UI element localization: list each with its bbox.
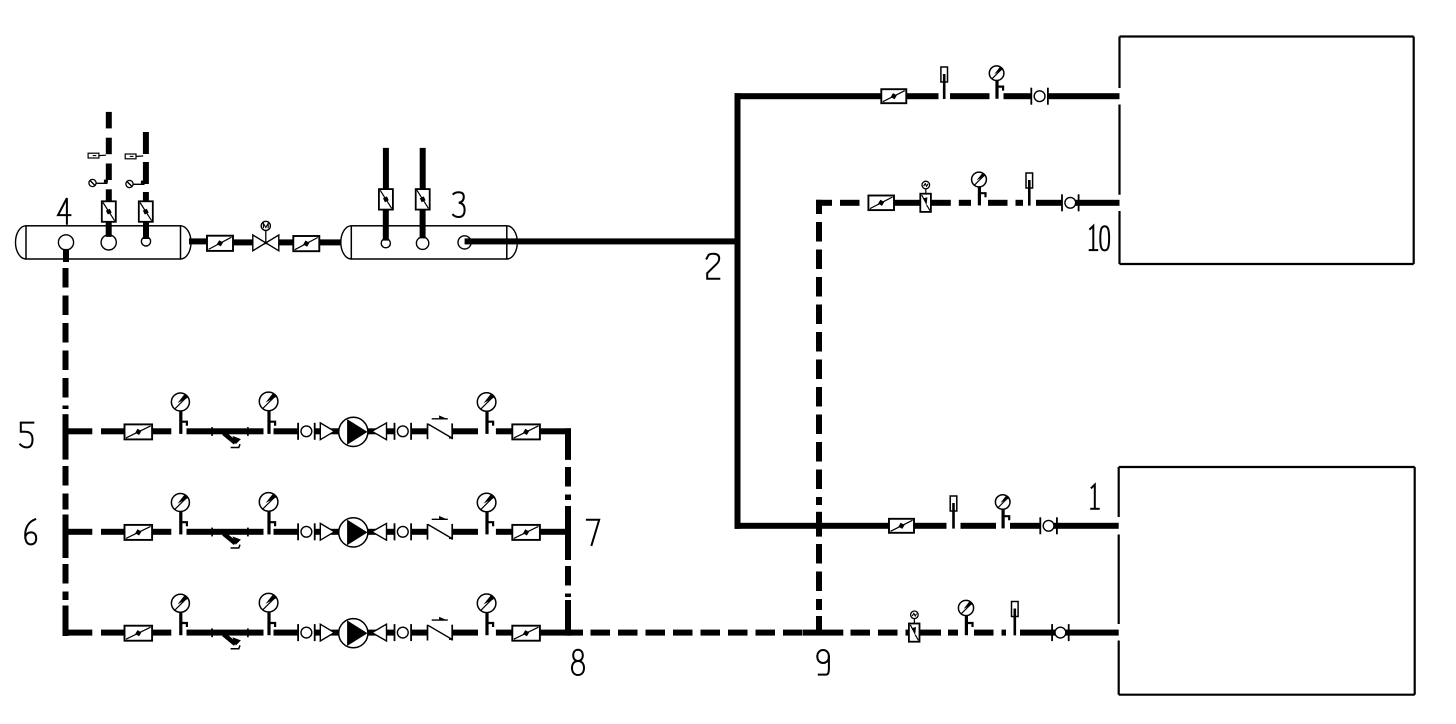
main pipe manifold 3 outlet to node 2 (465, 238, 735, 244)
manifold 3 port B (416, 237, 428, 249)
check valve on pump branch 3 (428, 617, 453, 641)
return pipe to box 10 (dashed) (816, 200, 1120, 206)
pressure gauge 1 on pump branch 1 (171, 393, 189, 434)
gauge cock on riser V4b (126, 180, 145, 187)
pump branch 1 pipe segments (63, 428, 572, 434)
manifold 3 port A stem up (383, 210, 389, 241)
riser pipe above valve V3a (383, 148, 389, 189)
manifold 4 port C (small) (141, 237, 150, 246)
gauge cock on riser V4a (89, 179, 108, 186)
thermometer on return from box 10 (1026, 173, 1033, 206)
label 4 (58, 198, 70, 224)
valve A on pump branch 1 (125, 424, 153, 439)
valve on supply to box 1 (889, 519, 914, 533)
flange joint at box 1 supply (1040, 517, 1057, 534)
thermometer on supply to box 10 (941, 67, 948, 99)
pump branch 2 pipe segments (63, 529, 572, 535)
left riser from manifold 4 (dashed) (63, 259, 70, 636)
label 3 (453, 192, 465, 217)
return pipe node 9 to box 1 (dashed) (803, 630, 1119, 636)
relief valve on return from box 10 (920, 181, 931, 212)
pressure gauge 1 on pump branch 3 (171, 594, 189, 635)
pressure gauge on supply to box 1 (995, 495, 1010, 529)
pump branch 3 pipe segments (63, 630, 572, 636)
manifold 3 port B stem up (420, 210, 426, 239)
pressure gauge 3 on pump branch 3 (477, 594, 496, 635)
flexible connector in on pump branch 2 (320, 523, 334, 540)
flange joint at box 10 return (1062, 194, 1079, 211)
strainer on pump branch 2 (212, 528, 248, 548)
manifold 4 port A stem (63, 249, 69, 259)
flange 1 on pump branch 3 (298, 624, 315, 641)
unit box 1 (1119, 467, 1415, 695)
valve B on pump branch 3 (512, 626, 540, 641)
flange 2 on pump branch 2 (395, 523, 412, 540)
label 2 (707, 254, 720, 279)
relief valve on return from box 1 (909, 611, 920, 642)
flange joint at box 10 supply (1031, 88, 1048, 105)
valve V4b above manifold 4 (139, 201, 153, 222)
flange 2 on pump branch 1 (395, 423, 412, 440)
pipe to motor valve (233, 239, 252, 245)
thermometer on riser V4a (88, 153, 106, 158)
pressure gauge 3 on pump branch 1 (477, 393, 496, 434)
valve V3a above manifold 3 (379, 189, 393, 210)
node 9 stub (816, 616, 822, 632)
check valve on pump branch 1 (428, 415, 453, 439)
unit box 10 (1120, 37, 1414, 265)
flange 2 on pump branch 3 (395, 624, 412, 641)
valve A on pump branch 2 (125, 525, 153, 540)
label 8 (572, 650, 584, 675)
collector tank 4 (manifold) (16, 226, 192, 259)
manifold 4 port A (left, down to riser) (58, 235, 73, 250)
pressure gauge 1 on pump branch 2 (171, 494, 189, 535)
strainer on pump branch 3 (212, 628, 248, 648)
right header between pump rows (dashed) (565, 428, 571, 635)
return pipe elbow/riser to node 9 (dashed) (816, 200, 822, 633)
pump P2 (339, 518, 368, 547)
supply pipe node 2 to box 1 (735, 523, 1119, 529)
supply pipe node 2 to box 10 (735, 93, 1120, 99)
pressure gauge on return from box 10 (972, 172, 987, 205)
riser pipe above valve V4a (dashed) (106, 112, 112, 202)
valve on return from box 10 (868, 196, 894, 211)
pressure gauge 2 on pump branch 1 (259, 392, 278, 434)
thermometer on riser V4b (125, 154, 143, 159)
manifold 4 port C stem up (143, 222, 149, 239)
strainer on pump branch 1 (212, 427, 248, 447)
valve V4a above manifold 4 (102, 201, 116, 222)
flange 1 on pump branch 1 (298, 423, 315, 440)
pump P3 (339, 619, 368, 648)
collector tank 3 (manifold) (341, 226, 518, 259)
label 5 (20, 423, 33, 448)
thermometer on return from box 1 (1012, 602, 1019, 636)
pipe manifold 4 to valve (189, 238, 207, 244)
label 6 (25, 519, 36, 544)
valve A on pump branch 3 (125, 626, 153, 641)
pump P1 (339, 417, 368, 446)
manifold 3 port C (outlet) (458, 236, 471, 249)
pressure gauge 2 on pump branch 2 (259, 493, 278, 535)
pipe valve to manifold 3 (319, 239, 351, 245)
flexible connector out on pump branch 3 (372, 624, 387, 641)
manifold 4 port B stem up (106, 222, 112, 237)
flange 1 on pump branch 2 (298, 523, 315, 540)
valve V3b above manifold 3 (416, 189, 430, 210)
pressure gauge on return from box 1 (958, 600, 973, 635)
check valve on pump branch 2 (428, 516, 453, 540)
flexible connector out on pump branch 1 (372, 423, 387, 440)
thermometer on supply to box 1 (950, 496, 957, 529)
manifold 3 port A (small) (381, 239, 390, 248)
pressure gauge on supply to box 10 (989, 66, 1004, 99)
pressure gauge 3 on pump branch 2 (477, 493, 496, 534)
flexible connector in on pump branch 1 (320, 423, 334, 440)
pressure gauge 2 on pump branch 3 (259, 593, 278, 635)
pipe motor valve to valve (279, 239, 293, 245)
label 7 (587, 520, 599, 545)
riser pipe above valve V3b (420, 148, 426, 189)
valve on interconnect line (left) (207, 236, 233, 251)
label 9 (817, 650, 829, 675)
valve B on pump branch 1 (512, 424, 540, 439)
valve on interconnect line (right) (293, 236, 319, 251)
riser pipe above valve V4b (dashed) (143, 132, 149, 202)
valve B on pump branch 2 (512, 525, 540, 540)
label 1 (1091, 485, 1099, 509)
motorised valve M (253, 221, 279, 251)
bottom return run to node 9 (dashed) (568, 630, 803, 636)
label 10 (1090, 226, 1109, 251)
main solid trunk (node 2 riser) (735, 93, 741, 529)
flexible connector out on pump branch 2 (372, 523, 387, 540)
flexible connector in on pump branch 3 (320, 624, 334, 641)
manifold 4 port B (101, 235, 116, 250)
valve on supply to box 10 (881, 89, 906, 103)
flange joint at box 1 return (1052, 624, 1069, 641)
